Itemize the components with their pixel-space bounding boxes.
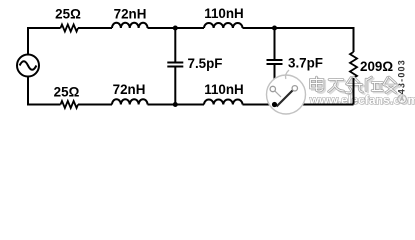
wire R2 to L3 bbox=[78, 104, 112, 106]
svg-text:25Ω: 25Ω bbox=[55, 7, 81, 22]
node D junction dot bbox=[272, 102, 277, 107]
wire L4 to bottom-right corner bbox=[243, 104, 354, 106]
wire node A down to C1 bbox=[174, 28, 176, 62]
inductor L4 110nH bottom bbox=[204, 100, 243, 105]
svg-text:110nH: 110nH bbox=[204, 6, 243, 21]
svg-text:25Ω: 25Ω bbox=[54, 85, 80, 100]
voltage source VS bbox=[17, 55, 39, 77]
watermark registered mark bbox=[398, 95, 407, 104]
inductor L2 110nH top bbox=[204, 23, 243, 28]
svg-text:110nH: 110nH bbox=[204, 82, 243, 97]
node C junction dot bbox=[173, 102, 178, 107]
wire right rail lower bbox=[353, 78, 355, 105]
watermark chinese text bbox=[311, 77, 400, 94]
wire R1 to L1 bbox=[78, 27, 112, 29]
svg-text:7.5pF: 7.5pF bbox=[188, 56, 223, 71]
inductor L3 72nH bottom bbox=[112, 99, 148, 104]
wire bottom rail overlay bbox=[304, 104, 354, 106]
inductor L1 72nH top bbox=[112, 23, 148, 28]
wire L1 to L2 through node A bbox=[148, 27, 205, 29]
wire L2 to top-right corner bbox=[243, 28, 354, 52]
wire bottom-left corner bbox=[28, 77, 61, 105]
resistor R3 209ohm vertical bbox=[350, 52, 357, 78]
svg-text:72nH: 72nH bbox=[113, 82, 146, 97]
wire C1 down to node C bbox=[174, 68, 176, 105]
node A junction dot bbox=[173, 26, 178, 31]
svg-text:3.7pF: 3.7pF bbox=[288, 56, 323, 71]
node B junction dot bbox=[272, 26, 277, 31]
capacitor C1 7.5pF bbox=[167, 63, 183, 67]
svg-text:72nH: 72nH bbox=[114, 7, 147, 22]
watermark logo circle bbox=[267, 70, 306, 114]
capacitor C2 3.7pF bbox=[267, 60, 283, 64]
wire node B down to C2 bbox=[274, 28, 276, 59]
wire top-left corner bbox=[28, 28, 61, 55]
watermark url text bbox=[309, 93, 415, 108]
wire C2 down to node D bbox=[274, 65, 276, 105]
resistor R2 25ohm bottom bbox=[61, 101, 78, 108]
wire L3 to L4 through node C bbox=[148, 104, 205, 106]
svg-text:209Ω: 209Ω bbox=[360, 59, 393, 74]
resistor R1 25ohm top bbox=[61, 25, 78, 32]
wire right rail overlay bbox=[353, 78, 355, 105]
